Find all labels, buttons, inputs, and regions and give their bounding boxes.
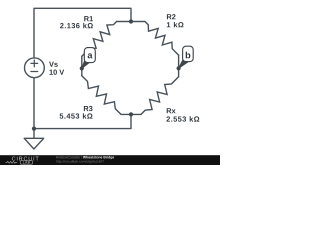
value Rx xyxy=(166,116,199,121)
node T junction xyxy=(129,19,133,23)
resistor R3 xyxy=(81,68,83,75)
resistor Rx xyxy=(178,68,180,77)
logo LAB box xyxy=(20,161,32,165)
node bottom junction xyxy=(129,112,133,116)
node a junction xyxy=(80,66,84,70)
ground xyxy=(24,138,44,149)
voltage source Vs xyxy=(25,58,45,78)
logo CIRCUIT xyxy=(12,157,39,161)
wire ground lead xyxy=(33,129,35,139)
logo LAB text xyxy=(23,161,30,163)
value R1 xyxy=(60,23,93,28)
node b label tail xyxy=(179,59,188,68)
label R3 xyxy=(84,106,93,111)
value R3 xyxy=(60,113,93,118)
wire R1 to node a xyxy=(81,56,83,68)
label R1 xyxy=(84,16,93,21)
value R2 xyxy=(167,22,184,27)
footer url line xyxy=(56,160,104,163)
node a label box xyxy=(84,48,95,63)
node a label tail xyxy=(82,59,90,68)
wire R2 to node b xyxy=(178,55,180,68)
node b junction xyxy=(177,66,181,70)
resistor R2 xyxy=(131,21,145,23)
label R2 xyxy=(167,14,176,19)
footer bar xyxy=(0,155,220,165)
node b label box xyxy=(183,46,194,61)
wire Rx to bottom node xyxy=(131,113,141,115)
wire left and top rails xyxy=(34,8,131,128)
logo resistor zigzag xyxy=(6,161,18,163)
wire R3 to bottom node xyxy=(121,113,131,115)
resistor R1 xyxy=(117,21,131,23)
node ground junction xyxy=(32,127,36,131)
value Vs xyxy=(49,70,64,75)
footer credit line xyxy=(56,156,82,159)
label Rx xyxy=(167,108,176,113)
wire bottom rail xyxy=(34,114,131,128)
label Vs xyxy=(49,62,58,67)
